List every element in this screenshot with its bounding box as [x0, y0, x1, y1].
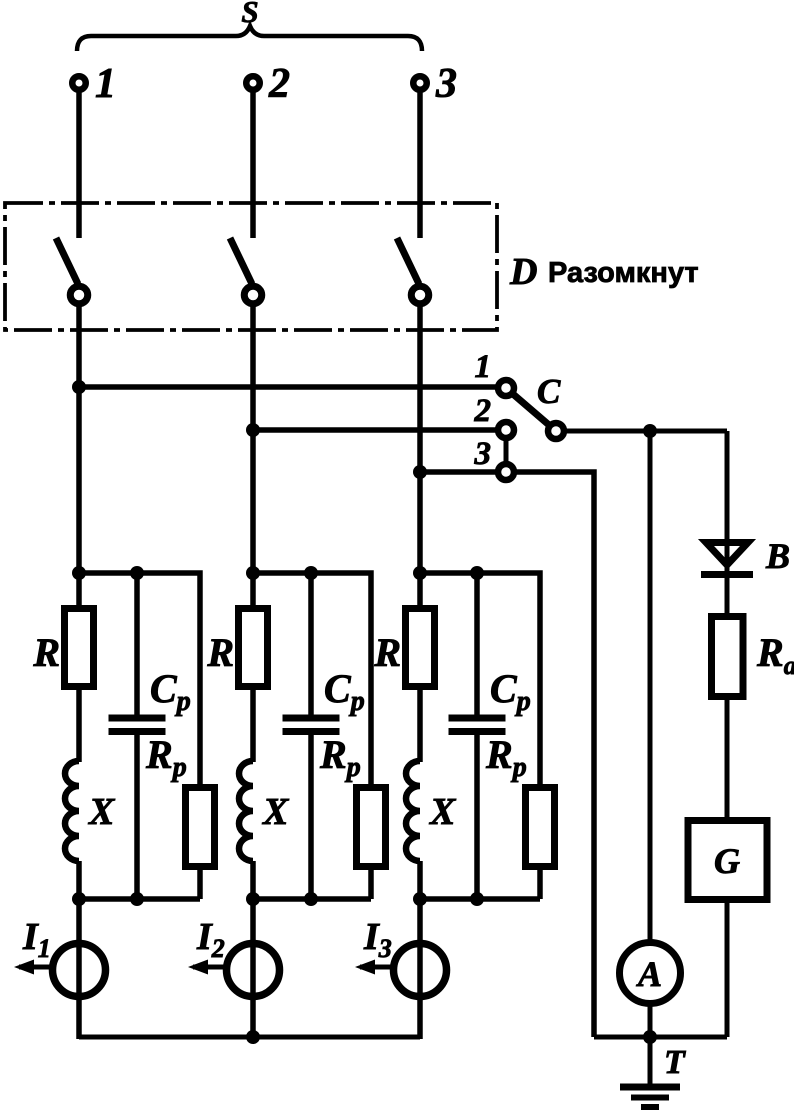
wire ground rail	[594, 1035, 727, 1040]
svg-text:X: X	[429, 791, 457, 833]
terminal 2	[246, 76, 260, 90]
wire ammeter branch	[648, 431, 653, 941]
current transformer I2	[227, 944, 280, 997]
node branch 3 top-left	[413, 566, 427, 580]
wire capacitor bottom branch 3	[474, 732, 480, 900]
svg-text:3: 3	[435, 61, 457, 107]
wire terminal 2 to switch D pole 2	[250, 92, 256, 238]
svg-text:C: C	[537, 372, 561, 411]
current transformer I1	[53, 944, 106, 997]
switch D hinge phase 2	[244, 286, 262, 304]
wire G to ground rail	[725, 903, 730, 1037]
ammeter A	[620, 943, 681, 1004]
brace S	[77, 26, 422, 51]
wire X to CT branch 1	[76, 861, 82, 1039]
node phase1/line1 junction	[72, 380, 86, 394]
terminal 1	[72, 76, 86, 90]
resistor Rp branch 2	[357, 788, 386, 867]
disconnector enclosure D (dash-dot box)	[5, 203, 497, 330]
switch D blade phase 2	[230, 238, 252, 284]
node branch 1 bottom-left	[72, 892, 86, 906]
node branch 1 top-left	[72, 566, 86, 580]
capacitor Cp branch 1 top plate	[109, 715, 166, 722]
svg-text:X: X	[262, 791, 290, 833]
wire switch D phase 1 down to branch 1	[76, 306, 82, 606]
capacitor Cp branch 3 top plate	[449, 715, 506, 722]
node branch 2 bottom-left	[246, 892, 260, 906]
svg-text:A: A	[636, 954, 662, 994]
resistor R branch 1	[65, 609, 94, 687]
node phase2/line2 junction	[246, 423, 260, 437]
node branch 2 bottom-cap	[304, 892, 318, 906]
node ammeter tap	[643, 424, 657, 438]
wire switch D phase 2 down to branch 2	[250, 306, 256, 606]
svg-text:Cp: Cp	[150, 666, 191, 717]
wire branch 2 top rail	[253, 573, 371, 786]
svg-text:I1: I1	[22, 916, 51, 963]
wire to earth T	[648, 1037, 653, 1087]
wire link selector pos2-pos3	[504, 430, 509, 472]
capacitor Cp branch 3 bottom plate	[449, 728, 506, 735]
svg-text:R: R	[32, 630, 60, 675]
node ground junction	[643, 1030, 657, 1044]
wire terminal 3 to switch D pole 3	[417, 92, 423, 238]
current transformer I3	[394, 944, 447, 997]
switch D blade phase 3	[397, 238, 419, 284]
wire phase 3 to selector pos 3 and corner	[420, 472, 594, 1037]
wire terminal 1 to switch D pole 1	[76, 92, 82, 238]
node branch 2 top-left	[246, 566, 260, 580]
node phase3/line3 junction	[413, 465, 427, 479]
svg-text:D: D	[509, 251, 537, 293]
wire capacitor top branch 2	[308, 573, 314, 718]
diode B triangle	[706, 543, 748, 566]
switch C blade (pos1 to common)	[506, 388, 556, 431]
node branch 3 top-cap	[470, 566, 484, 580]
wire Rp to bottom rail branch 1	[197, 870, 203, 899]
resistor R branch 2	[239, 609, 268, 687]
svg-text:Rp: Rp	[485, 732, 527, 783]
svg-text:T: T	[664, 1044, 686, 1081]
wire capacitor top branch 3	[474, 573, 480, 718]
galvanometer G box	[688, 821, 767, 900]
wire branch 2 bottom rail	[253, 896, 371, 902]
wire branch 3 top rail	[420, 573, 540, 786]
svg-text:R: R	[206, 630, 234, 675]
svg-text:Cp: Cp	[490, 666, 531, 717]
arrow I3	[355, 960, 391, 975]
wire R to X branch 1	[76, 690, 82, 762]
svg-text:Rp: Rp	[145, 732, 187, 783]
resistor Ra	[712, 617, 744, 697]
svg-text:I3: I3	[363, 916, 392, 963]
wire switch D phase 3 down to branch 3	[417, 306, 423, 606]
wire X to CT branch 2	[250, 861, 256, 1039]
ground T bar 3	[641, 1104, 659, 1110]
svg-text:3: 3	[474, 436, 492, 472]
wire A to ground rail	[648, 1004, 653, 1037]
node neutral/phase2	[246, 1030, 260, 1044]
switch C contact 3	[498, 464, 514, 480]
svg-text:Rp: Rp	[319, 732, 361, 783]
wire Rp to bottom rail branch 2	[368, 870, 374, 899]
ground T bar 1	[620, 1084, 680, 1091]
wire phase 1 to selector pos 1	[79, 384, 496, 390]
switch C contact 2	[498, 422, 514, 438]
ground T bar 2	[631, 1095, 669, 1101]
svg-text:2: 2	[474, 393, 492, 429]
node branch 3 bottom-cap	[470, 892, 484, 906]
wire R to X branch 3	[417, 690, 423, 762]
svg-text:Cp: Cp	[324, 666, 365, 717]
svg-text:B: B	[765, 536, 790, 576]
switch C contact 1	[498, 380, 514, 396]
diode B cathode bar	[701, 571, 753, 578]
wire phase 2 to selector pos 2	[253, 427, 496, 433]
node branch 1 top-cap	[130, 566, 144, 580]
svg-text:G: G	[714, 841, 740, 881]
arrow I1	[14, 960, 50, 975]
wire R to X branch 2	[250, 690, 256, 762]
wire selector common to diode column	[567, 429, 727, 434]
switch D hinge phase 3	[411, 286, 429, 304]
capacitor Cp branch 2 bottom plate	[283, 728, 340, 735]
svg-text:2: 2	[268, 61, 290, 107]
resistor R branch 3	[406, 609, 435, 687]
capacitor Cp branch 1 bottom plate	[109, 728, 166, 735]
svg-text:1: 1	[475, 349, 492, 385]
wire neutral bus	[79, 1035, 420, 1040]
wire Ra to G	[725, 700, 730, 817]
switch D blade phase 1	[56, 238, 78, 284]
arrow I2	[188, 960, 224, 975]
wire X to CT branch 3	[417, 861, 423, 1039]
inductor X branch 3	[406, 761, 420, 861]
node branch 3 bottom-left	[413, 892, 427, 906]
svg-text:Ra: Ra	[756, 630, 794, 680]
capacitor Cp branch 2 top plate	[283, 715, 340, 722]
svg-text:R: R	[373, 630, 401, 675]
wire capacitor bottom branch 1	[134, 732, 140, 900]
wire through diode	[725, 543, 730, 574]
node branch 2 top-cap	[304, 566, 318, 580]
svg-text:Разомкнут: Разомкнут	[548, 257, 699, 289]
inductor X branch 1	[65, 761, 79, 861]
switch C common contact	[548, 423, 564, 439]
wire branch 1 top rail	[79, 573, 200, 786]
resistor Rp branch 3	[526, 788, 555, 867]
wire to diode B	[725, 431, 730, 543]
wire capacitor bottom branch 2	[308, 732, 314, 900]
terminal 3	[413, 76, 427, 90]
wire branch 3 bottom rail	[420, 896, 540, 902]
wire branch 1 bottom rail	[79, 896, 200, 902]
svg-text:1: 1	[95, 61, 116, 107]
resistor Rp branch 1	[186, 788, 215, 867]
svg-text:I2: I2	[196, 916, 225, 963]
wire Rp to bottom rail branch 3	[537, 870, 543, 899]
switch D hinge phase 1	[70, 286, 88, 304]
wire diode to Ra	[725, 578, 730, 613]
node branch 1 bottom-cap	[130, 892, 144, 906]
inductor X branch 2	[239, 761, 253, 861]
wire capacitor top branch 1	[134, 573, 140, 718]
svg-text:X: X	[88, 791, 116, 833]
